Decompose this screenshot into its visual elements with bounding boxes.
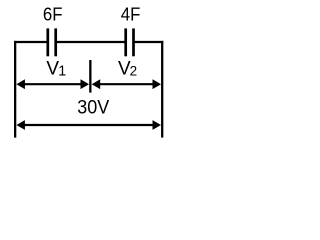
wire top-left segment: [14, 41, 48, 43]
dimension arrow V2: [92, 79, 161, 89]
wire left vertical: [14, 41, 16, 138]
svg-text:1: 1: [58, 63, 66, 79]
wire top-middle segment: [56, 41, 126, 43]
dimension arrow 30V: [16, 120, 161, 130]
wire top-right segment: [134, 41, 164, 43]
dimension arrow V1: [16, 79, 89, 89]
label V2: [118, 59, 137, 80]
capacitor C2 4F plates: [126, 28, 134, 56]
label V1: [46, 59, 66, 80]
label 30V: [77, 97, 109, 119]
node middle tick: [89, 60, 91, 93]
svg-text:30V: 30V: [77, 97, 109, 119]
capacitor C1 6F plates: [48, 28, 56, 56]
label 4F: [121, 4, 141, 25]
svg-text:6F: 6F: [43, 4, 63, 25]
svg-text:4F: 4F: [121, 4, 141, 25]
label 6F: [43, 4, 63, 25]
svg-text:2: 2: [130, 63, 138, 78]
wire right vertical: [161, 41, 163, 138]
